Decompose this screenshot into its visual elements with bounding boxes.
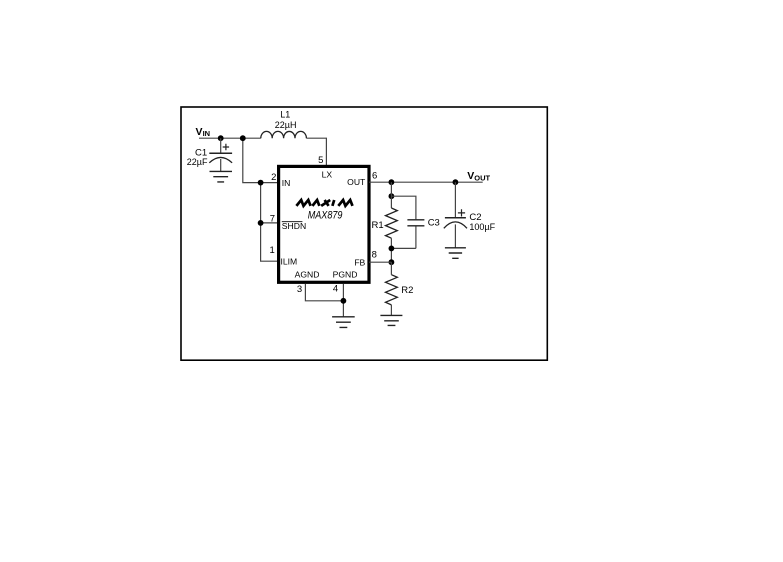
junction dot VIN/C1 (218, 135, 224, 141)
svg-text:PGND: PGND (333, 270, 358, 280)
capacitor C2 (444, 182, 467, 247)
wire bus to SHDN and ILIM (261, 183, 279, 262)
svg-text:22µF: 22µF (187, 157, 208, 167)
border frame (181, 107, 547, 360)
svg-text:IN: IN (203, 129, 211, 138)
wire AGND stub (305, 284, 343, 301)
svg-text:V: V (467, 170, 474, 182)
svg-text:ILIM: ILIM (281, 256, 298, 266)
svg-text:100µF: 100µF (469, 222, 495, 232)
svg-text:3: 3 (297, 284, 302, 295)
svg-text:2: 2 (271, 172, 276, 183)
svg-text:AGND: AGND (295, 270, 320, 280)
capacitor C3 (391, 196, 424, 248)
ground R2 (380, 315, 402, 325)
svg-text:LX: LX (322, 170, 333, 180)
wire VIN corner to IN (243, 138, 279, 182)
ground PGND (332, 317, 355, 328)
junction dot AGND/PGND (341, 298, 347, 304)
svg-text:1: 1 (270, 245, 275, 256)
svg-text:5: 5 (318, 155, 323, 166)
junction dot SHDN (258, 220, 264, 226)
pin label SHDN (282, 221, 306, 231)
wire VIN horizontal (199, 137, 261, 139)
junction dot VIN/bus (240, 135, 246, 141)
junction dot IN (258, 180, 264, 186)
svg-text:FB: FB (354, 258, 365, 268)
ground C2 (445, 248, 466, 258)
wire PGND stub (342, 284, 344, 317)
svg-text:R1: R1 (372, 220, 384, 231)
junction dot R1/C3 top (389, 193, 395, 199)
svg-text:R2: R2 (401, 285, 413, 296)
resistor R1 (386, 182, 398, 262)
svg-text:7: 7 (270, 213, 275, 224)
inductor L1 (261, 131, 307, 138)
svg-text:C3: C3 (428, 218, 440, 229)
label MAXIM logo (296, 200, 352, 206)
wire OUT to VOUT (369, 181, 483, 183)
svg-text:IN: IN (282, 178, 291, 188)
junction dot FB (389, 259, 395, 265)
svg-text:L1: L1 (280, 110, 290, 120)
wire L1 to pin5 (306, 138, 326, 165)
ground C1 (210, 171, 233, 182)
resistor R2 (386, 262, 398, 315)
svg-text:22µH: 22µH (275, 120, 297, 130)
svg-text:V: V (196, 126, 203, 138)
svg-text:8: 8 (372, 250, 377, 261)
junction dot R1/C3 bottom (389, 246, 395, 252)
svg-text:MAX879: MAX879 (308, 210, 343, 222)
svg-text:SHDN: SHDN (282, 221, 306, 231)
wire FB stub (369, 261, 391, 263)
svg-text:OUT: OUT (474, 173, 490, 182)
node VIN label (196, 126, 211, 138)
junction dot VOUT/C2 (453, 179, 459, 185)
junction dot OUT/R1 (389, 179, 395, 185)
svg-text:OUT: OUT (347, 177, 366, 187)
node VOUT label (467, 170, 490, 182)
svg-text:6: 6 (372, 170, 377, 181)
svg-text:4: 4 (333, 284, 338, 295)
capacitor C1 (209, 138, 232, 171)
op-amp U1 MAX879 body (279, 166, 369, 282)
